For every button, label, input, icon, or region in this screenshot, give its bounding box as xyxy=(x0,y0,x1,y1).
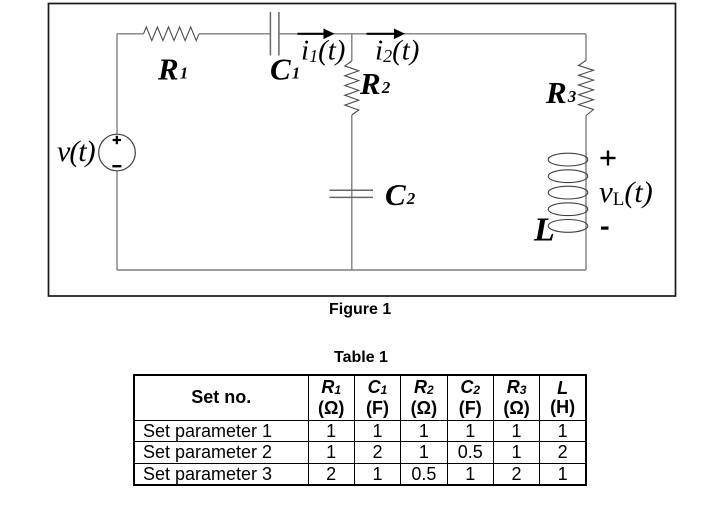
svg-text:C1: C1 xyxy=(270,52,300,87)
svg-text:v(t): v(t) xyxy=(57,135,96,168)
minus mark for vL xyxy=(601,227,609,230)
current arrow i2(t) xyxy=(367,33,395,35)
wire: C1 to right corner xyxy=(279,33,586,35)
wire: node to R2 xyxy=(351,34,353,61)
voltage source circle xyxy=(99,134,136,171)
svg-text:R1: R1 xyxy=(157,52,188,87)
wire: left vertical from top wire to source xyxy=(116,34,118,134)
source - mark xyxy=(112,165,121,167)
inductor L coils xyxy=(548,153,588,232)
svg-text:R2: R2 xyxy=(359,66,391,101)
wire: right branch top to R3 xyxy=(585,34,587,61)
circuit figure xyxy=(0,0,706,340)
resistor R2 zigzag xyxy=(345,61,359,115)
capacitor C1 plates xyxy=(269,12,271,56)
resistor R1 zigzag xyxy=(144,27,200,41)
current arrow i1(t) xyxy=(298,33,325,35)
bottom wire xyxy=(117,269,586,271)
svg-text:i1(t): i1(t) xyxy=(301,35,345,67)
capacitor C2 plates xyxy=(330,189,374,191)
wire: top left segment to R1 xyxy=(117,33,144,35)
wire: source bottom to bottom-left corner xyxy=(116,171,118,270)
svg-text:i2(t): i2(t) xyxy=(375,35,419,67)
wire: R2 to bottom through C2 xyxy=(351,115,353,270)
resistor R3 zigzag xyxy=(579,61,594,116)
svg-text:R3: R3 xyxy=(545,75,577,110)
wire: R1 to C1 xyxy=(199,33,270,35)
wire: R3 through inductor to bottom xyxy=(585,116,587,271)
svg-text:L: L xyxy=(533,212,555,249)
table 1 xyxy=(133,374,587,486)
source + mark xyxy=(113,139,121,141)
plus mark for vL xyxy=(601,157,616,159)
svg-text:vL(t): vL(t) xyxy=(599,174,653,210)
caption Table 1 xyxy=(334,350,388,366)
caption Figure 1 xyxy=(329,302,391,318)
figure border frame xyxy=(49,4,676,297)
svg-text:C2: C2 xyxy=(385,177,416,212)
